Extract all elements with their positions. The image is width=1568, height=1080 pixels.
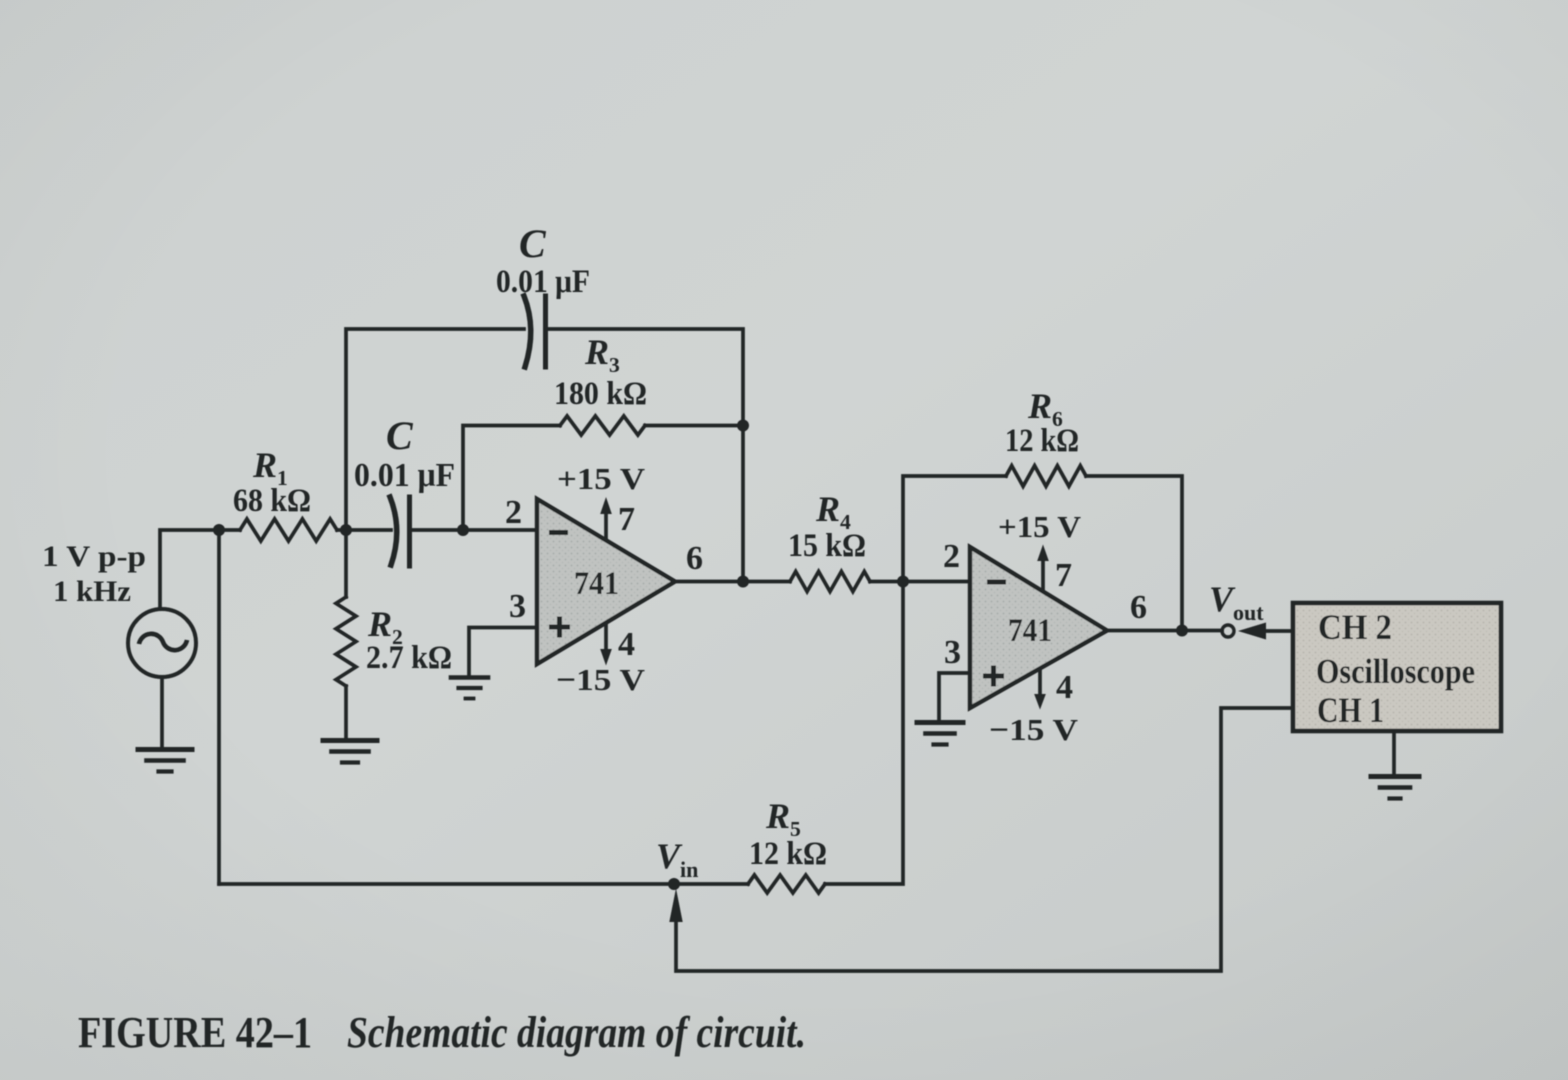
svg-text:0.01 μF: 0.01 μF: [354, 457, 455, 494]
svg-text:2: 2: [943, 538, 960, 575]
svg-text:741: 741: [1008, 613, 1052, 649]
svg-text:−15 V: −15 V: [556, 662, 646, 697]
svg-text:C: C: [386, 413, 414, 458]
svg-text:0.01 μF: 0.01 μF: [496, 264, 590, 300]
svg-text:+15 V: +15 V: [557, 461, 646, 496]
svg-text:15 kΩ: 15 kΩ: [788, 528, 866, 564]
svg-text:+15 V: +15 V: [998, 509, 1082, 544]
svg-text:FIGURE 42–1: FIGURE 42–1: [78, 1008, 312, 1057]
svg-text:2.7 kΩ: 2.7 kΩ: [366, 640, 452, 676]
svg-text:3: 3: [509, 588, 526, 625]
svg-text:1 V p-p: 1 V p-p: [42, 540, 146, 573]
svg-text:Oscilloscope: Oscilloscope: [1316, 652, 1475, 691]
svg-text:7: 7: [618, 501, 635, 538]
svg-text:CH 1: CH 1: [1317, 690, 1384, 730]
svg-text:6: 6: [686, 540, 703, 577]
svg-text:−15 V: −15 V: [989, 712, 1079, 747]
svg-text:1 kHz: 1 kHz: [53, 575, 131, 608]
svg-text:3: 3: [944, 634, 961, 671]
svg-text:12 kΩ: 12 kΩ: [749, 836, 827, 872]
svg-text:180 kΩ: 180 kΩ: [554, 376, 647, 412]
svg-text:2: 2: [505, 494, 522, 531]
svg-text:Schematic diagram of circuit.: Schematic diagram of circuit.: [347, 1008, 806, 1057]
svg-text:741: 741: [574, 566, 619, 602]
svg-text:CH 2: CH 2: [1318, 607, 1392, 647]
svg-text:6: 6: [1130, 589, 1147, 626]
svg-text:4: 4: [618, 626, 635, 663]
svg-text:7: 7: [1055, 557, 1072, 594]
svg-text:68 kΩ: 68 kΩ: [233, 483, 311, 519]
svg-text:C: C: [519, 221, 547, 266]
svg-text:12 kΩ: 12 kΩ: [1005, 423, 1079, 459]
svg-text:4: 4: [1056, 669, 1073, 706]
